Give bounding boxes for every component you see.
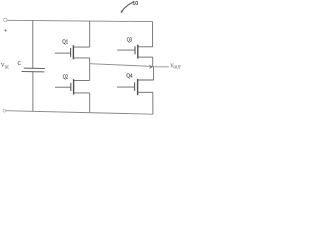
Q1 gate lead bbox=[55, 52, 70, 54]
transistor Q1 bbox=[55, 45, 90, 59]
svg-text:10: 10 bbox=[132, 1, 138, 7]
label C bbox=[18, 61, 21, 67]
label Q2 bbox=[63, 74, 68, 81]
label VOUT bbox=[170, 64, 181, 70]
wire capacitor branch top bbox=[32, 21, 34, 69]
Q1 gate bar bbox=[70, 48, 72, 57]
Q4 drain lead bbox=[138, 79, 154, 81]
label 10 bbox=[132, 1, 138, 7]
Q2 source lead bbox=[74, 92, 90, 94]
svg-text:Q2: Q2 bbox=[63, 74, 68, 81]
label VDC bbox=[1, 63, 9, 70]
Q2 gate bar bbox=[70, 83, 72, 91]
plus sign bbox=[4, 29, 6, 31]
svg-text:OUT: OUT bbox=[174, 65, 182, 69]
svg-text:Q1: Q1 bbox=[62, 38, 68, 45]
wire capacitor branch bottom bbox=[32, 72, 34, 111]
Q1 source lead bbox=[73, 57, 89, 59]
terminal top-left bbox=[4, 18, 7, 21]
transistor Q4 bbox=[117, 79, 154, 95]
wire Q3 source to output node bbox=[152, 57, 154, 66]
arrowhead reference 10 bbox=[121, 10, 124, 13]
svg-text:Q3: Q3 bbox=[127, 36, 132, 43]
wire top rail bbox=[7, 20, 153, 21]
svg-text:Q4: Q4 bbox=[126, 72, 133, 79]
wire leg1 bottom (Q2 source to bottom rail) bbox=[89, 93, 91, 112]
label Q1 bbox=[62, 38, 68, 45]
wire leg1 midpoint (Q1 source to Q2 drain) bbox=[89, 58, 91, 81]
wire output node to Q4 drain bbox=[153, 66, 155, 80]
Q2 gate lead bbox=[55, 86, 70, 88]
wire VOUT leader bbox=[153, 66, 169, 68]
Q4 gate bar bbox=[134, 82, 136, 90]
Q2 channel bar bbox=[73, 79, 75, 94]
reference arrow 10 bbox=[122, 2, 133, 11]
Q3 gate bar bbox=[134, 46, 136, 54]
Q1 drain lead bbox=[73, 46, 89, 48]
wire leg2 top (rail to Q3 drain) bbox=[152, 22, 154, 47]
label Q4 bbox=[126, 72, 133, 79]
Q1 channel bar bbox=[72, 45, 74, 59]
terminal bottom-left bbox=[3, 109, 6, 112]
wire leg2 bottom (Q4 source to bottom rail) bbox=[152, 92, 154, 114]
arrowhead VOUT leader bbox=[149, 65, 153, 69]
wire bottom rail bbox=[6, 111, 153, 115]
wire leg1 top (rail to Q1 drain) bbox=[89, 21, 91, 47]
Q3 channel bar bbox=[137, 45, 139, 59]
Q3 drain lead bbox=[138, 46, 153, 48]
Q2 drain lead bbox=[74, 79, 90, 81]
transistor Q2 bbox=[55, 79, 90, 94]
Q4 gate lead bbox=[117, 86, 134, 88]
capacitor C bbox=[22, 68, 45, 72]
transistor Q3 bbox=[117, 45, 153, 59]
Q4 channel bar bbox=[137, 79, 139, 95]
wire output midline bbox=[90, 64, 153, 67]
Q3 source lead bbox=[138, 56, 153, 58]
svg-text:DC: DC bbox=[5, 66, 10, 70]
Q4 source lead bbox=[138, 91, 153, 93]
Q3 gate lead bbox=[117, 49, 134, 51]
label Q3 bbox=[127, 36, 132, 43]
svg-text:C: C bbox=[18, 61, 21, 67]
